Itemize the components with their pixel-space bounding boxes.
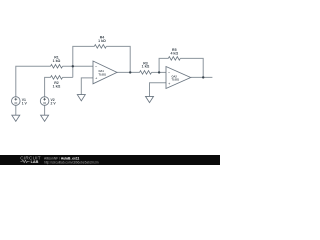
label R2 1 kOhm — [53, 81, 61, 88]
ground under V1 — [12, 115, 20, 121]
svg-text:1 kΩ: 1 kΩ — [53, 59, 61, 63]
wire R2 to summing vertical — [63, 76, 73, 78]
junction OA1 output node — [129, 71, 131, 73]
svg-text:1 V: 1 V — [22, 101, 28, 105]
wire V1 top to R1 line — [16, 66, 51, 96]
svg-text:1 kΩ: 1 kΩ — [142, 65, 150, 69]
wire OA1 plus input — [81, 78, 93, 95]
op-amp OA2 — [166, 67, 191, 89]
wire V1 bottom — [15, 105, 17, 115]
wire R5 to OA2 output — [180, 58, 203, 77]
wire feedback node to R5 — [159, 58, 168, 72]
voltage source V1 — [12, 97, 21, 106]
svg-text:TL081: TL081 — [99, 72, 107, 76]
op-amp OA1 — [93, 61, 117, 84]
resistor R2 — [51, 76, 63, 80]
resistor R3 — [140, 71, 152, 75]
wire R1 to OA1 minus — [63, 65, 94, 67]
label R4 1 kOhm — [98, 36, 106, 43]
resistor R4 — [94, 45, 106, 49]
svg-text:4 kΩ: 4 kΩ — [170, 51, 178, 55]
svg-text:1 kΩ: 1 kΩ — [53, 85, 61, 89]
label R5 4 kOhm — [170, 48, 178, 55]
svg-text:http://circuitlab.com/c8b6ebe5: http://circuitlab.com/c8b6ebe5ab2mzm — [44, 160, 99, 164]
CircuitLab logo — [20, 156, 41, 164]
svg-text:2 V: 2 V — [51, 101, 57, 105]
label R1 1 kOhm — [53, 56, 61, 63]
svg-text:1 kΩ: 1 kΩ — [98, 39, 106, 43]
label V2 2 V — [51, 98, 57, 106]
ground under V2 — [41, 115, 49, 121]
ground OA2 plus — [146, 96, 154, 102]
wire R4 to OA1 output — [106, 46, 130, 72]
junction OA2 output node — [202, 76, 204, 78]
wire OA1 output to R3 — [117, 71, 140, 73]
wire OA2 plus input — [150, 83, 167, 97]
svg-text:TL081: TL081 — [172, 78, 180, 82]
wire R3 to OA2 minus — [152, 71, 167, 73]
svg-text:LAB: LAB — [31, 160, 39, 164]
wire summing node vertical — [73, 46, 95, 77]
junction summing node — [72, 65, 74, 67]
voltage source V2 — [40, 97, 49, 106]
ground OA1 plus — [77, 95, 85, 101]
wire V2 top to R2 — [45, 77, 51, 96]
label R3 1 kOhm — [142, 61, 150, 68]
resistor R1 — [51, 65, 63, 69]
label V1 1 V — [22, 98, 28, 106]
wire V2 bottom — [44, 105, 46, 115]
resistor R5 — [168, 57, 180, 61]
junction OA2 minus node — [158, 71, 160, 73]
watermark footer bar — [0, 155, 220, 165]
wire OA2 output — [191, 76, 213, 78]
